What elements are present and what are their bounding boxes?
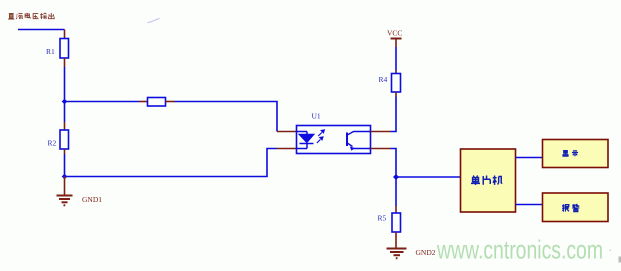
svg-text:R4: R4 xyxy=(379,75,388,84)
svg-text:GND2: GND2 xyxy=(416,248,436,257)
U1 phototransistor xyxy=(347,132,371,151)
片 xyxy=(483,175,490,184)
报 xyxy=(562,204,569,211)
wire node C to MCU xyxy=(396,176,461,178)
MCU box 单片机 xyxy=(461,149,516,212)
U1 pin 3 emitter xyxy=(371,148,391,150)
svg-text:R5: R5 xyxy=(378,214,387,223)
wire emitter to node C xyxy=(391,149,397,178)
U1 pin 2 cathode xyxy=(277,148,297,150)
svg-text:GND1: GND1 xyxy=(82,195,102,204)
resistor R3 pin left xyxy=(139,101,148,103)
wire node C to R5 xyxy=(395,177,397,206)
压 xyxy=(33,14,39,20)
流 xyxy=(16,14,22,20)
node B junction xyxy=(62,174,68,180)
node C junction xyxy=(393,174,399,180)
resistor R2 pin top xyxy=(64,122,66,130)
出 xyxy=(48,13,54,19)
机 xyxy=(493,175,502,184)
wire node B to U1 cathode xyxy=(65,149,277,177)
输 xyxy=(40,13,46,19)
op-to-coupler U1 body xyxy=(297,126,371,154)
resistor R1 pin top xyxy=(64,30,66,39)
svg-text:VCC: VCC xyxy=(387,29,402,38)
wire node A to R3 xyxy=(65,101,140,103)
wire collector to R4 xyxy=(391,97,397,132)
alarm box 报警 xyxy=(543,193,609,222)
resistor R1 xyxy=(60,39,69,59)
resistor R4 pin top xyxy=(395,71,397,74)
U1 LED xyxy=(297,132,314,149)
node A junction xyxy=(62,99,68,105)
示 xyxy=(572,151,578,156)
wire node A to R2 xyxy=(64,102,66,123)
display box 显示 xyxy=(543,140,609,168)
resistor R3 pin right xyxy=(166,101,175,103)
label 直流电压输出 (DC voltage output) xyxy=(8,13,54,19)
单 xyxy=(471,176,480,185)
alarm text 报警 xyxy=(562,204,579,211)
U1 pin 1 anode xyxy=(277,131,297,133)
svg-text:www.cntronics.com: www.cntronics.com xyxy=(436,235,603,265)
display text 显示 xyxy=(562,151,578,157)
power port VCC xyxy=(391,39,402,48)
直 xyxy=(8,13,14,19)
resistor R3 xyxy=(148,98,166,107)
corner mark xyxy=(619,257,621,263)
svg-text:R1: R1 xyxy=(46,47,55,56)
resistor R5 pin bottom xyxy=(395,232,397,248)
resistor R5 pin top xyxy=(395,206,397,213)
wire R2 to node B xyxy=(64,154,66,177)
resistor R2 xyxy=(60,130,69,149)
svg-text:U1: U1 xyxy=(312,112,321,121)
MCU text 单片机 xyxy=(471,175,502,184)
resistor R4 xyxy=(392,74,401,93)
显 xyxy=(562,151,568,157)
wire R1 to node A xyxy=(64,67,66,102)
svg-text:R2: R2 xyxy=(48,139,57,148)
wire MCU to display box xyxy=(516,157,543,159)
U1 LED light arrows xyxy=(317,130,325,143)
stray mark squiggle xyxy=(148,18,160,23)
wire MCU to alarm box xyxy=(516,204,543,206)
wire input top-left xyxy=(18,29,65,31)
ground GND2 xyxy=(387,249,407,259)
resistor R1 pin bottom xyxy=(64,58,66,67)
resistor R5 xyxy=(392,213,401,232)
电 xyxy=(25,13,30,19)
U1 pin 4 collector xyxy=(371,131,391,133)
警 xyxy=(572,204,579,211)
ground GND1 xyxy=(57,177,73,206)
wire VCC to R4 xyxy=(395,47,397,71)
resistor R4 pin bottom xyxy=(395,92,397,97)
resistor R2 pin bottom xyxy=(64,149,66,154)
wire R3 to U1 anode xyxy=(175,102,278,132)
